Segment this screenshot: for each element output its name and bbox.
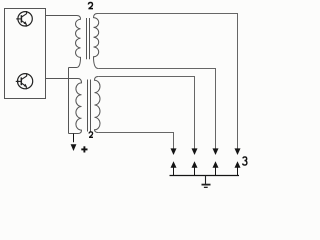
box: enclosure 1 [5,9,46,99]
wire: jack common bus [170,175,240,177]
ground [202,176,211,188]
connector jack: up arrow contact 1 [171,161,177,175]
connector jack: up arrow contact 2 [192,161,198,175]
transistor Q1 [16,11,32,27]
connector plug: down arrow pin 1 [171,148,177,155]
transistor Q2 [16,73,33,89]
transformer T1 primary winding [46,16,81,68]
label 3 (plug) [243,157,247,165]
label 2 (top, transformer T1) [88,3,93,9]
connector plug: down arrow pin 4 [235,148,241,155]
wire B: T1 secondary bottom to plug pin 3 [98,69,215,149]
connector jack: up arrow contact 4 [235,161,241,175]
wire A: T1 secondary top to plug pin 4 [98,14,238,149]
wire: T1 primary bottom to T2 primary bottom (vertical link) [68,68,70,134]
label 2 (bottom, transformer T2) [89,132,93,137]
transformer T1 secondary winding [94,14,99,69]
label + (battery polarity) [81,146,87,152]
connector plug: down arrow pin 2 [192,148,198,155]
transformer T1 core [87,18,90,59]
wire C: T2 secondary top to plug pin 2 [98,77,194,149]
wire D: T2 secondary bottom to plug pin 1 [98,133,173,149]
connector plug: down arrow pin 3 [213,148,219,155]
arrow: battery positive lead (down arrow under T2) [71,134,77,152]
transformer T2 secondary winding [95,77,101,133]
transformer T2 core [88,80,91,132]
connector jack: up arrow contact 3 [213,161,219,175]
transformer T2 primary winding [46,79,82,134]
